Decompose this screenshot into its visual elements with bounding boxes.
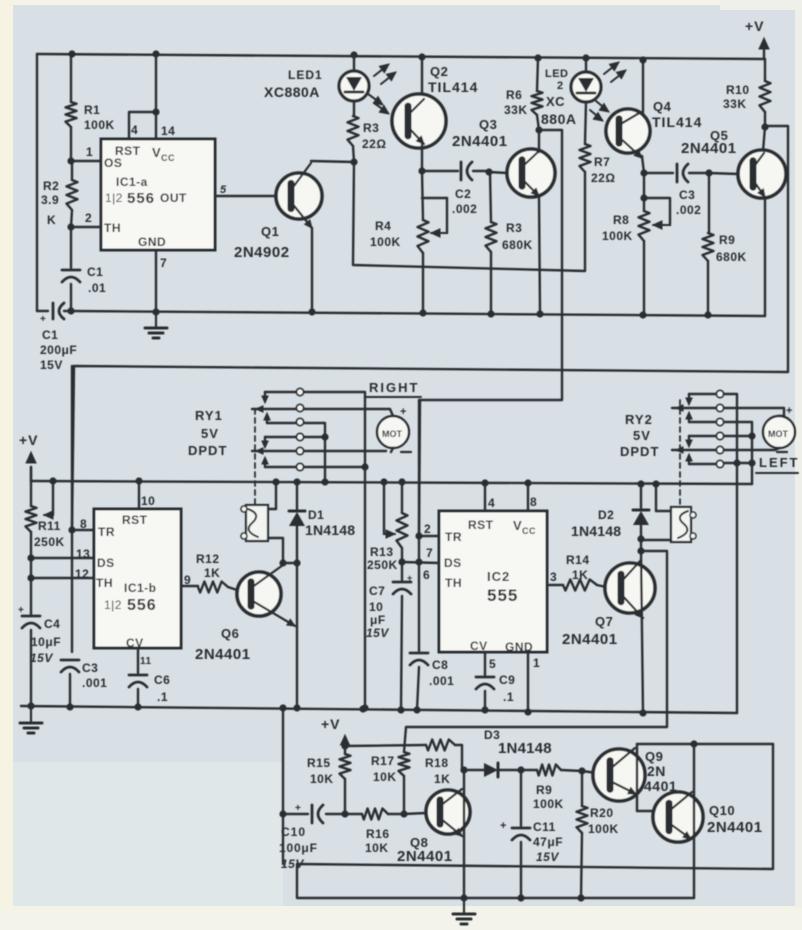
svg-text:RST: RST	[468, 518, 494, 532]
svg-text:C7: C7	[369, 584, 385, 598]
svg-text:R18: R18	[425, 756, 449, 770]
svg-text:680K: 680K	[716, 250, 747, 264]
svg-text:880A: 880A	[541, 111, 576, 127]
svg-text:R4: R4	[375, 219, 391, 233]
svg-text:R8: R8	[613, 213, 629, 227]
svg-text:100K: 100K	[533, 797, 564, 811]
svg-text:Q9: Q9	[645, 749, 663, 764]
svg-text:R13: R13	[370, 545, 394, 559]
svg-text:2N4401: 2N4401	[452, 133, 508, 150]
svg-text:.01: .01	[88, 281, 106, 295]
svg-text:.001: .001	[82, 676, 107, 690]
svg-text:R17: R17	[371, 754, 395, 768]
svg-text:47μF: 47μF	[533, 835, 563, 849]
svg-text:+V: +V	[745, 18, 765, 34]
svg-text:R9: R9	[719, 233, 735, 247]
svg-text:XC880A: XC880A	[264, 84, 320, 100]
svg-text:C8: C8	[432, 658, 448, 672]
svg-text:+: +	[40, 314, 46, 325]
svg-text:R6: R6	[506, 88, 522, 102]
svg-text:R16: R16	[366, 827, 390, 841]
svg-text:+: +	[786, 405, 793, 417]
svg-text:1N4148: 1N4148	[305, 522, 355, 538]
svg-text:5V: 5V	[201, 426, 219, 441]
svg-text:R11: R11	[38, 519, 61, 533]
svg-text:C1: C1	[87, 265, 103, 279]
svg-text:V: V	[513, 518, 522, 533]
svg-text:RY1: RY1	[195, 408, 223, 423]
svg-text:2N4401: 2N4401	[707, 819, 763, 836]
svg-text:10K: 10K	[373, 770, 397, 784]
svg-text:+: +	[18, 605, 24, 616]
svg-text:33K: 33K	[723, 97, 747, 111]
svg-text:+V: +V	[19, 432, 39, 448]
svg-text:DS: DS	[97, 556, 115, 570]
svg-text:13: 13	[76, 547, 90, 561]
svg-text:1N4148: 1N4148	[498, 740, 552, 757]
svg-text:.1: .1	[157, 690, 168, 704]
svg-text:100K: 100K	[84, 118, 115, 132]
svg-text:LED1: LED1	[288, 68, 323, 82]
svg-text:Q7: Q7	[595, 614, 613, 629]
svg-text:RIGHT: RIGHT	[369, 380, 419, 395]
svg-text:10: 10	[141, 494, 155, 508]
svg-text:XC: XC	[546, 94, 565, 109]
svg-text:.002: .002	[676, 203, 701, 217]
svg-text:R12: R12	[196, 552, 220, 566]
svg-text:2N4401: 2N4401	[562, 631, 618, 648]
svg-text:1|2: 1|2	[104, 598, 122, 612]
svg-text:+: +	[400, 406, 407, 418]
svg-text:1K: 1K	[204, 566, 220, 580]
svg-text:TH: TH	[104, 221, 121, 235]
svg-text:C10: C10	[281, 825, 306, 839]
svg-text:C2: C2	[455, 187, 471, 201]
svg-text:CC: CC	[522, 526, 536, 536]
svg-text:DPDT: DPDT	[188, 443, 227, 458]
svg-text:10K: 10K	[365, 841, 389, 855]
svg-text:556: 556	[127, 597, 157, 614]
svg-text:R20: R20	[590, 806, 614, 820]
svg-text:RY2: RY2	[625, 412, 653, 427]
svg-text:4: 4	[131, 123, 138, 137]
svg-text:Q10: Q10	[709, 803, 735, 818]
svg-text:1: 1	[533, 656, 540, 670]
svg-text:Q4: Q4	[653, 99, 672, 114]
svg-text:RST: RST	[122, 513, 148, 527]
svg-text:250K: 250K	[367, 558, 398, 572]
svg-text:3: 3	[550, 570, 557, 584]
svg-text:TIL414: TIL414	[428, 79, 478, 95]
svg-text:10μF: 10μF	[31, 635, 61, 649]
svg-text:MOT: MOT	[768, 429, 788, 439]
svg-text:MOT: MOT	[382, 429, 402, 439]
svg-text:D1: D1	[308, 508, 324, 522]
svg-text:15V: 15V	[536, 850, 559, 864]
svg-text:8: 8	[80, 517, 87, 531]
svg-text:C11: C11	[533, 820, 556, 834]
svg-text:+V: +V	[321, 716, 341, 732]
svg-text:10: 10	[369, 600, 383, 614]
svg-text:TIL414: TIL414	[652, 114, 702, 130]
svg-text:2N4902: 2N4902	[234, 244, 290, 261]
svg-text:100K: 100K	[588, 822, 619, 836]
svg-text:2N4401: 2N4401	[681, 140, 737, 157]
svg-text:2N4401: 2N4401	[195, 646, 251, 663]
svg-text:LED: LED	[545, 68, 569, 80]
svg-text:680K: 680K	[502, 238, 533, 252]
svg-text:250K: 250K	[34, 535, 65, 549]
svg-text:4: 4	[488, 496, 495, 510]
svg-text:12: 12	[75, 567, 89, 581]
svg-text:TR: TR	[98, 525, 115, 539]
svg-text:100μF: 100μF	[279, 841, 318, 855]
svg-text:15V: 15V	[366, 626, 389, 640]
svg-text:R7: R7	[594, 155, 610, 169]
svg-text:R14: R14	[566, 553, 590, 567]
svg-text:R3: R3	[363, 121, 379, 135]
svg-text:Q1: Q1	[261, 224, 279, 239]
svg-text:Q2: Q2	[430, 64, 448, 79]
svg-text:1K: 1K	[434, 772, 450, 786]
svg-text:11: 11	[140, 656, 152, 667]
svg-text:CV: CV	[126, 636, 144, 650]
svg-text:8: 8	[530, 495, 537, 509]
svg-text:R3: R3	[506, 221, 522, 235]
svg-text:2: 2	[557, 80, 564, 92]
svg-text:μF: μF	[370, 613, 386, 627]
svg-text:1N4148: 1N4148	[571, 523, 621, 539]
svg-text:15V: 15V	[40, 358, 63, 372]
svg-text:R15: R15	[307, 756, 331, 770]
svg-text:7: 7	[160, 256, 167, 270]
svg-text:CC: CC	[161, 153, 175, 163]
svg-text:C4: C4	[44, 617, 60, 631]
svg-text:Q6: Q6	[221, 626, 239, 641]
svg-text:D2: D2	[598, 508, 614, 522]
svg-text:555: 555	[487, 586, 518, 605]
svg-text:OS: OS	[104, 156, 122, 170]
svg-text:1|2: 1|2	[105, 191, 123, 205]
svg-text:+: +	[500, 820, 507, 832]
svg-text:1K: 1K	[572, 568, 588, 582]
svg-text:33K: 33K	[504, 103, 528, 117]
svg-text:+: +	[407, 573, 413, 583]
svg-text:R10: R10	[726, 83, 750, 97]
svg-text:2N: 2N	[647, 763, 666, 779]
svg-text:Q3: Q3	[479, 117, 497, 132]
svg-text:R9: R9	[536, 783, 552, 797]
svg-text:200μF: 200μF	[40, 343, 77, 357]
svg-text:2: 2	[424, 522, 431, 536]
svg-text:C6: C6	[154, 673, 170, 687]
svg-text:5V: 5V	[633, 428, 651, 443]
svg-text:2N4401: 2N4401	[397, 848, 453, 865]
svg-text:C3: C3	[679, 188, 695, 202]
svg-text:.1: .1	[503, 690, 514, 704]
svg-text:C9: C9	[499, 673, 515, 687]
svg-text:V: V	[152, 145, 161, 160]
svg-text:GND: GND	[138, 235, 166, 249]
svg-text:R1: R1	[84, 103, 100, 117]
svg-text:5: 5	[220, 184, 227, 196]
svg-text:10K: 10K	[310, 772, 334, 786]
svg-text:IC1-b: IC1-b	[124, 581, 157, 595]
svg-text:K: K	[47, 213, 56, 227]
svg-text:100K: 100K	[370, 235, 401, 249]
svg-text:OUT: OUT	[160, 191, 187, 205]
svg-text:LEFT: LEFT	[759, 455, 800, 470]
svg-text:TH: TH	[96, 576, 113, 590]
svg-text:DPDT: DPDT	[620, 444, 659, 459]
svg-text:TH: TH	[445, 576, 462, 590]
svg-text:.001: .001	[429, 674, 454, 688]
svg-text:5: 5	[489, 657, 496, 671]
svg-text:22Ω: 22Ω	[591, 171, 615, 185]
svg-text:C1: C1	[42, 328, 58, 342]
svg-text:+: +	[295, 803, 301, 814]
svg-text:100K: 100K	[602, 229, 633, 243]
svg-text:TR: TR	[445, 530, 462, 544]
svg-text:.002: .002	[452, 202, 477, 216]
svg-text:DS: DS	[444, 556, 462, 570]
svg-text:14: 14	[161, 124, 175, 138]
svg-text:556: 556	[127, 190, 155, 207]
svg-text:IC1-a: IC1-a	[116, 175, 148, 189]
svg-text:3.9: 3.9	[41, 193, 59, 207]
svg-text:6: 6	[423, 568, 430, 582]
svg-text:1: 1	[86, 145, 93, 159]
svg-text:7: 7	[426, 546, 433, 560]
svg-text:R2: R2	[43, 179, 59, 193]
svg-text:C3: C3	[82, 661, 98, 675]
svg-text:15V: 15V	[30, 651, 53, 665]
svg-text:22Ω: 22Ω	[362, 137, 386, 151]
svg-text:2: 2	[85, 211, 92, 225]
svg-text:IC2: IC2	[487, 569, 510, 584]
